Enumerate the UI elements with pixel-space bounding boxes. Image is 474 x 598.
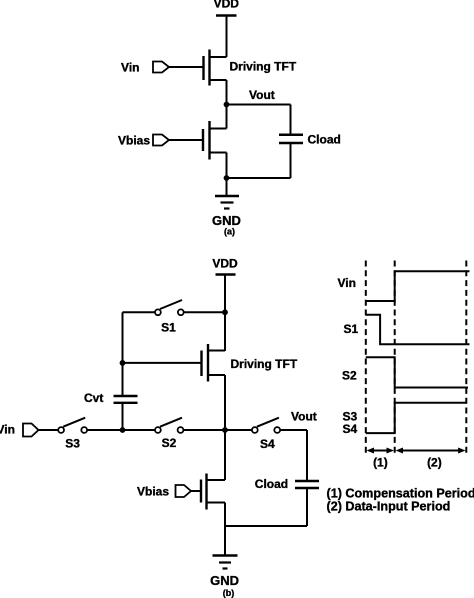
- svg-text:Driving TFT: Driving TFT: [230, 60, 297, 74]
- svg-text:Vin: Vin: [338, 276, 356, 290]
- svg-text:Cload: Cload: [255, 477, 288, 491]
- svg-text:(1): (1): [373, 455, 388, 469]
- svg-text:S1: S1: [161, 320, 176, 334]
- svg-text:S3: S3: [65, 437, 80, 451]
- svg-text:S4: S4: [260, 437, 275, 451]
- svg-text:Cload: Cload: [308, 133, 341, 147]
- svg-text:Vin: Vin: [121, 61, 139, 75]
- svg-text:Vbias: Vbias: [118, 134, 150, 148]
- svg-text:Vout: Vout: [249, 88, 275, 102]
- svg-text:Driving TFT: Driving TFT: [231, 357, 298, 371]
- svg-text:(a): (a): [224, 227, 235, 237]
- svg-text:GND: GND: [210, 573, 239, 588]
- svg-text:(2): (2): [427, 455, 442, 469]
- svg-text:(1) Compensation Period: (1) Compensation Period: [327, 487, 474, 501]
- svg-text:S2: S2: [162, 436, 177, 450]
- svg-text:Vbias: Vbias: [137, 485, 169, 499]
- svg-text:VDD: VDD: [212, 256, 238, 270]
- svg-text:Vin: Vin: [0, 422, 15, 436]
- svg-text:S4: S4: [343, 422, 358, 436]
- svg-text:(b): (b): [223, 588, 235, 598]
- svg-text:Cvt: Cvt: [84, 391, 103, 405]
- svg-text:S2: S2: [342, 369, 357, 383]
- svg-text:Vout: Vout: [291, 410, 317, 424]
- svg-text:S1: S1: [344, 322, 359, 336]
- svg-text:VDD: VDD: [214, 0, 240, 11]
- svg-text:(2) Data-Input Period: (2) Data-Input Period: [327, 500, 451, 514]
